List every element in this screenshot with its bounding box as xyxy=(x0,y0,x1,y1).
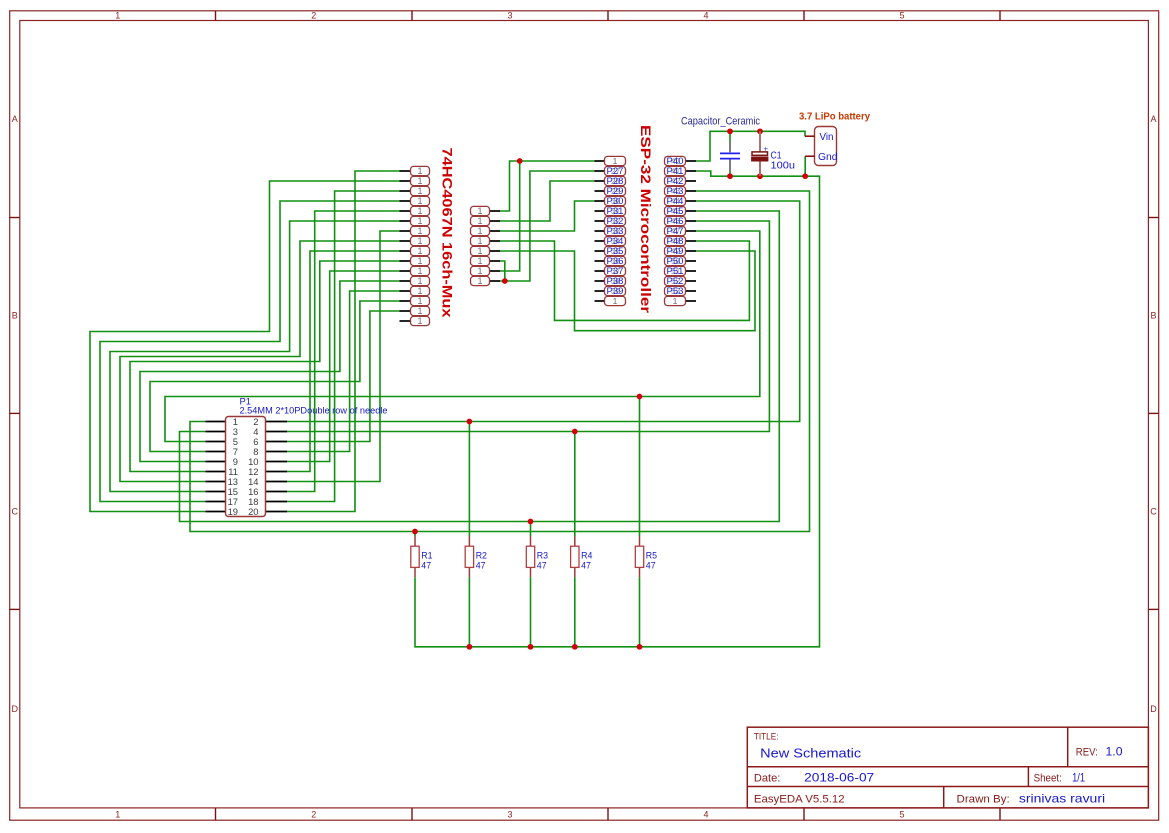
svg-text:1: 1 xyxy=(417,296,422,306)
wire net P1 pin5 / R5 / ESP P47 xyxy=(165,231,760,442)
capacitor C1 100u polarized xyxy=(752,131,769,176)
mux U1 ctrl pin stubs xyxy=(490,211,501,281)
svg-text:TITLE:: TITLE: xyxy=(754,732,779,743)
wire net P1 pin3 / R3 / ESP P45 xyxy=(180,211,780,522)
svg-text:New Schematic: New Schematic xyxy=(760,746,861,761)
svg-text:2: 2 xyxy=(311,11,316,21)
svg-text:3: 3 xyxy=(507,810,512,820)
svg-text:47: 47 xyxy=(421,561,431,571)
svg-text:47: 47 xyxy=(537,561,547,571)
svg-text:R2: R2 xyxy=(476,551,487,561)
svg-text:1: 1 xyxy=(417,306,422,316)
wire R4 top tap xyxy=(574,432,576,537)
P1 left pin stubs xyxy=(206,422,226,512)
wire mux pin13 to P1 pin8 xyxy=(287,291,400,452)
svg-text:1: 1 xyxy=(417,286,422,296)
svg-text:100u: 100u xyxy=(771,161,796,172)
wire mux pin8 to P1 pin13 xyxy=(120,241,400,482)
svg-text:ESP-32 Microcontroller: ESP-32 Microcontroller xyxy=(637,125,653,314)
wire mux ctrl pin6 to node xyxy=(500,261,505,281)
wire R1 top tap xyxy=(414,532,416,537)
wire mux ctrl pin3 to ESP P30 xyxy=(500,201,595,231)
svg-text:74HC4067N 16ch-Mux: 74HC4067N 16ch-Mux xyxy=(439,148,455,318)
title block xyxy=(747,727,1148,808)
wire R3 bottom xyxy=(530,577,532,647)
wire net P1 pin2 / R2 / ESP P44 xyxy=(287,201,800,422)
svg-text:2018-06-07: 2018-06-07 xyxy=(804,771,874,785)
svg-text:47: 47 xyxy=(476,561,486,571)
wire mux pin11 to P1 pin10 xyxy=(287,271,400,462)
svg-text:A: A xyxy=(12,114,18,124)
svg-text:4: 4 xyxy=(703,11,708,21)
wire mux ctrl pin8 to ESP P27 xyxy=(500,171,595,281)
svg-text:R1: R1 xyxy=(421,551,432,561)
wire mux pin1 to P1 pin20 xyxy=(287,171,400,512)
svg-text:B: B xyxy=(12,311,18,321)
svg-text:1: 1 xyxy=(417,226,422,236)
svg-text:1.0: 1.0 xyxy=(1106,745,1123,759)
wire R3 top tap xyxy=(530,522,532,537)
frame row letters left xyxy=(11,114,18,714)
svg-text:R5: R5 xyxy=(646,551,657,561)
resistor R3 xyxy=(526,537,548,578)
svg-text:1: 1 xyxy=(477,206,482,216)
wire mux pin7 to P1 pin14 xyxy=(287,231,400,482)
svg-text:srinivas ravuri: srinivas ravuri xyxy=(1019,792,1105,806)
svg-text:Gnd: Gnd xyxy=(818,152,838,163)
wire mux ctrl pin2 to ESP P28 xyxy=(500,181,595,221)
frame row ticks left xyxy=(10,218,20,610)
svg-text:47: 47 xyxy=(581,561,591,571)
svg-text:1: 1 xyxy=(613,156,618,166)
svg-text:1: 1 xyxy=(115,11,120,21)
svg-text:C: C xyxy=(1150,507,1157,517)
wire R4 bottom xyxy=(574,577,576,647)
wire ceramic cap top xyxy=(729,131,731,141)
battery B1 3.7 LiPo xyxy=(805,127,838,166)
frame column ticks top xyxy=(216,11,1001,21)
frame row letters right xyxy=(1150,114,1157,714)
resistor R5 xyxy=(635,537,657,578)
svg-text:3.7 LiPo battery: 3.7 LiPo battery xyxy=(799,112,870,123)
svg-text:B: B xyxy=(1150,311,1156,321)
svg-text:1: 1 xyxy=(417,276,422,286)
svg-text:5: 5 xyxy=(899,11,904,21)
svg-text:Vin: Vin xyxy=(820,132,834,143)
svg-text:5: 5 xyxy=(899,810,904,820)
svg-text:19: 19 xyxy=(228,506,238,517)
wire mux pin6 to P1 pin15 xyxy=(110,221,400,492)
wire net GND: ESP P41 / capacitors / battery / resistor bottoms xyxy=(415,171,820,647)
wire mux pin3 to P1 pin18 xyxy=(287,191,400,502)
wire R2 top tap xyxy=(468,422,470,537)
frame column numbers bottom xyxy=(115,810,904,820)
wire mux ctrl pin7 to node xyxy=(500,161,520,271)
svg-text:1: 1 xyxy=(417,186,422,196)
frame column ticks bottom xyxy=(216,808,1001,820)
wire R5 top tap xyxy=(639,397,641,537)
svg-text:Sheet:: Sheet: xyxy=(1034,773,1062,785)
svg-text:1: 1 xyxy=(477,266,482,276)
svg-text:1: 1 xyxy=(477,216,482,226)
wire mux pin4 to P1 pin17 xyxy=(100,201,400,502)
wire net P1 pin1 / R1 / ESP P43 xyxy=(190,191,810,532)
svg-text:1: 1 xyxy=(477,236,482,246)
svg-text:1: 1 xyxy=(417,216,422,226)
svg-text:1: 1 xyxy=(673,296,678,306)
op-amp U2 ESP-32 right pin boxes xyxy=(665,156,686,306)
junction dots xyxy=(412,128,808,649)
svg-text:R3: R3 xyxy=(537,551,548,561)
svg-text:1: 1 xyxy=(417,256,422,266)
svg-text:Drawn By:: Drawn By: xyxy=(957,794,1010,806)
wire mux pin10 to P1 pin11 xyxy=(130,261,400,472)
svg-text:Capacitor_Ceramic: Capacitor_Ceramic xyxy=(681,116,761,128)
svg-text:1: 1 xyxy=(477,246,482,256)
wire battery Gnd drop xyxy=(804,156,806,176)
svg-text:20: 20 xyxy=(248,506,258,517)
multiplexer U1 74HC4067N channel pin boxes xyxy=(411,166,430,326)
wire ceramic cap bottom xyxy=(729,171,731,176)
svg-text:C: C xyxy=(11,507,18,517)
ESP U2 right pin stubs xyxy=(686,161,697,301)
svg-text:47: 47 xyxy=(646,561,656,571)
connector P1 body xyxy=(226,417,266,517)
svg-text:1: 1 xyxy=(477,276,482,286)
P1 right pin stubs xyxy=(266,422,288,512)
svg-text:1: 1 xyxy=(417,246,422,256)
svg-text:1: 1 xyxy=(115,810,120,820)
wire R2 bottom xyxy=(468,577,470,647)
resistor R2 xyxy=(465,537,487,578)
wire net P1 pin4 / R4 / ESP P46 xyxy=(287,221,769,432)
svg-text:A: A xyxy=(1150,114,1156,124)
svg-text:1/1: 1/1 xyxy=(1072,771,1085,785)
svg-text:2: 2 xyxy=(311,810,316,820)
svg-text:4: 4 xyxy=(703,810,708,820)
ESP U2 left pin stubs xyxy=(595,161,605,301)
svg-text:1: 1 xyxy=(417,206,422,216)
wire R5 bottom xyxy=(639,577,641,647)
svg-text:2.54MM 2*10PDouble row of need: 2.54MM 2*10PDouble row of needle xyxy=(240,406,388,416)
wire mux pin14 to P1 pin7 xyxy=(150,301,400,452)
resistor R1 xyxy=(411,537,433,578)
svg-text:1: 1 xyxy=(417,316,422,326)
svg-text:1: 1 xyxy=(417,266,422,276)
svg-text:1: 1 xyxy=(417,166,422,176)
frame column numbers top xyxy=(115,11,904,21)
multiplexer U1 control pin boxes xyxy=(471,206,490,286)
svg-text:1: 1 xyxy=(613,296,618,306)
wire mux pin2 to P1 pin19 xyxy=(90,181,400,512)
resistor R4 xyxy=(571,537,593,578)
mux U1 pin stubs xyxy=(400,171,411,321)
op-amp U2 ESP-32 left pin boxes xyxy=(605,156,626,306)
wire mux pin15 to P1 pin6 xyxy=(287,311,400,442)
svg-text:R4: R4 xyxy=(581,551,592,561)
connector P1 pin numbers xyxy=(228,416,259,517)
frame row ticks right xyxy=(1148,218,1158,610)
svg-text:3: 3 xyxy=(507,11,512,21)
wire mux ctrl pin5 to ESP P49 xyxy=(500,251,755,331)
capacitor ceramic C? xyxy=(720,142,740,172)
svg-text:1: 1 xyxy=(477,256,482,266)
svg-text:Date:: Date: xyxy=(754,773,781,785)
svg-text:D: D xyxy=(1150,704,1157,714)
svg-text:1: 1 xyxy=(477,226,482,236)
svg-text:D: D xyxy=(11,704,18,714)
svg-text:1: 1 xyxy=(417,196,422,206)
wire mux ctrl pin4 to ESP P48 xyxy=(500,241,749,320)
svg-text:EasyEDA V5.5.12: EasyEDA V5.5.12 xyxy=(754,794,845,806)
wire net VCC: ESP P40 to battery Vin rail xyxy=(696,131,805,161)
svg-text:1: 1 xyxy=(417,176,422,186)
svg-text:+: + xyxy=(764,144,769,153)
svg-text:1: 1 xyxy=(417,236,422,246)
svg-text:REV:: REV: xyxy=(1076,747,1098,759)
wire mux ctrl pin1 to ESP pin1 xyxy=(500,161,595,211)
wire mux pin5 to P1 pin16 xyxy=(287,211,400,492)
wire mux pin12 to P1 pin9 xyxy=(140,281,400,462)
wire mux pin9 to P1 pin12 xyxy=(287,251,400,472)
